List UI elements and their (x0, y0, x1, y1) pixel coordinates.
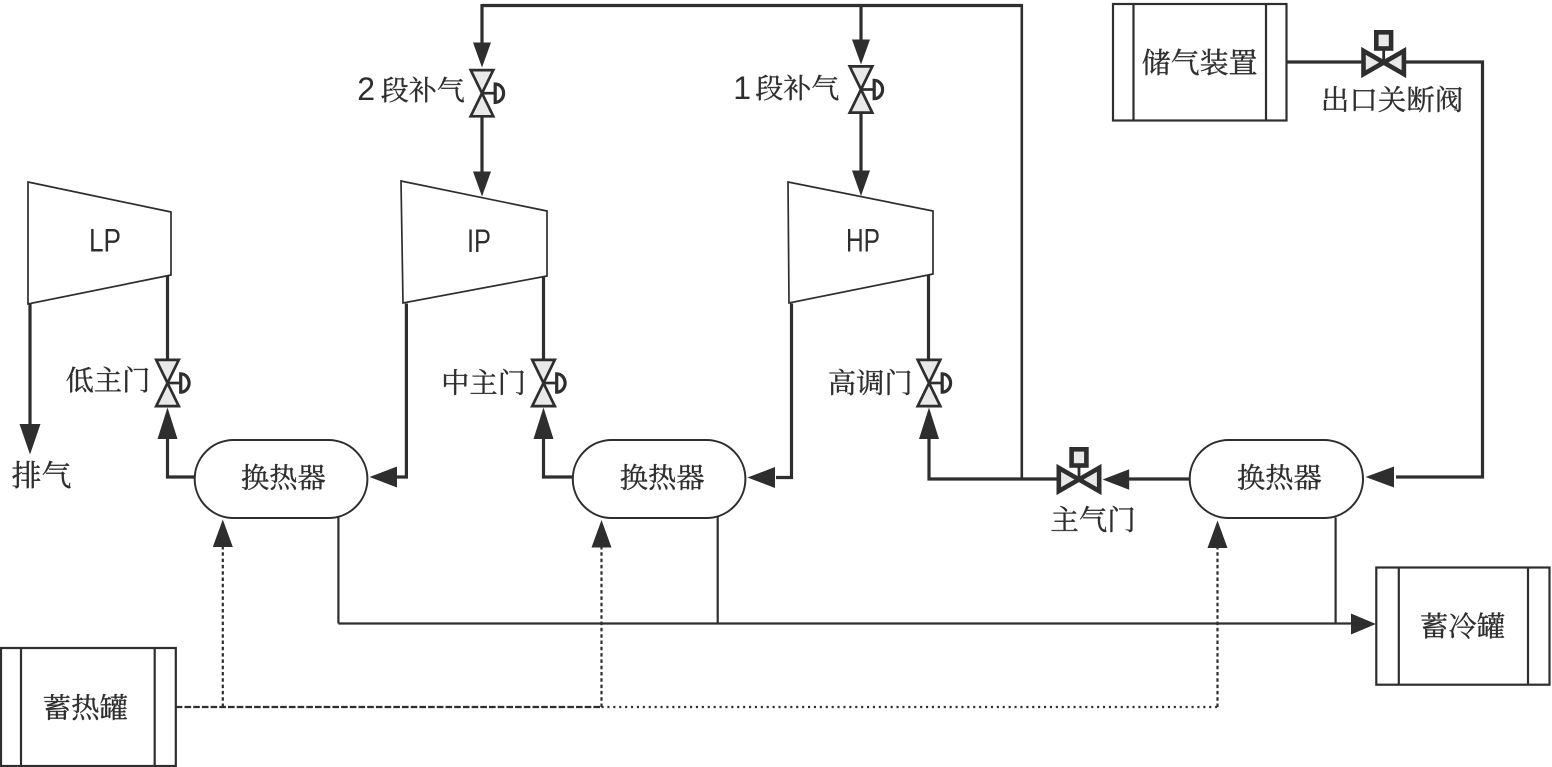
arrow into main valve (1103, 469, 1130, 490)
svg-text:2: 2 (357, 71, 375, 107)
wire right header drop (1020, 4, 1023, 478)
label 换热器 HX1 (242, 464, 325, 490)
tank gas storage 储气装置 (1113, 4, 1287, 121)
valve V2 2-stage makeup (471, 70, 504, 116)
arrow into HX1 (370, 467, 398, 488)
turbine IP (401, 181, 547, 303)
label 换热器 HX2 (621, 464, 704, 490)
svg-text:HP: HP (846, 223, 880, 259)
valve low main 低主门 (156, 360, 189, 406)
wire drop to valve V1 (859, 4, 862, 42)
wire HX3 to main valve (1128, 477, 1191, 480)
wire LP to valve (166, 276, 169, 359)
arrow exhaust (20, 424, 41, 455)
label HP (846, 223, 880, 259)
svg-text:1: 1 (733, 70, 751, 106)
wire LP exhaust (28, 304, 31, 426)
wire shutoff valve to HX3 (1396, 62, 1483, 477)
label 低主门 (66, 366, 148, 392)
label 排气 (12, 461, 70, 489)
arrow into valve V2 (473, 43, 491, 68)
wire HX2 down (717, 517, 719, 624)
wire dashed heat supply header right (602, 706, 1218, 708)
label 蓄冷罐 (1421, 612, 1504, 638)
label 高调门 (829, 369, 910, 395)
arrow into cold tank (1351, 614, 1376, 635)
valve outlet shutoff 出口关断阀 (1364, 32, 1404, 74)
svg-text:IP: IP (467, 223, 491, 259)
tank heat storage 蓄热罐 (1, 648, 176, 766)
label 2 digit (357, 71, 375, 107)
heat exchanger HX3 (1190, 440, 1363, 518)
wire HP to valve (927, 275, 930, 359)
valve high control 高调门 (918, 360, 951, 406)
wire storage to shutoff valve (1287, 60, 1363, 63)
valve main steam 主气门 (1059, 449, 1099, 491)
wire HP out to HX2 (776, 304, 792, 478)
wire collector to cold tank (338, 622, 1352, 624)
tank cold storage 蓄冷罐 (1376, 568, 1549, 685)
wire IP to valve (542, 277, 545, 359)
valve mid main 中主门 (532, 360, 565, 406)
arrow into high control valve (919, 408, 939, 440)
label 主气门 (1052, 506, 1134, 532)
arrow dashed into HX1 (213, 520, 233, 548)
wire valve V2 to IP (480, 118, 483, 174)
turbine LP (28, 182, 171, 304)
wire HX2 to mid main valve (544, 438, 574, 478)
valve V1 1-stage makeup (850, 66, 883, 112)
label 中主门 (444, 369, 524, 395)
arrow into HP (852, 171, 870, 197)
heat exchanger HX1 (195, 440, 368, 518)
label 2段补气 CJK (382, 77, 464, 103)
wire HX1 to low main valve (168, 438, 196, 478)
wire valve V1 to HP (859, 114, 862, 172)
label 蓄热罐 (44, 694, 127, 720)
wire dashed heat supply header left (176, 706, 602, 708)
arrow into valve V1 (852, 40, 870, 65)
label 换热器 HX3 (1238, 464, 1321, 490)
arrow into HX3 (1366, 467, 1395, 488)
label 出口关断阀 (1323, 86, 1462, 112)
wire dashed riser to HX3 (1216, 546, 1218, 707)
label 1 digit (733, 70, 751, 106)
wire drop to valve V2 (480, 4, 483, 45)
wire top header (482, 4, 1022, 7)
arrow dashed into HX2 (592, 520, 612, 548)
label 储气装置 (1143, 49, 1257, 76)
arrow into mid main valve (534, 408, 554, 440)
wire dashed riser to HX1 (222, 545, 224, 707)
label 1段补气 CJK (756, 75, 838, 101)
wire main steam pipe left (929, 438, 1058, 480)
wire HX3 down (1334, 518, 1336, 624)
wire IP out to HX1 (396, 304, 406, 478)
turbine HP (788, 182, 933, 303)
label LP (89, 223, 121, 259)
arrow dashed into HX3 (1208, 521, 1228, 549)
label IP (467, 223, 491, 259)
arrow into IP (473, 172, 491, 197)
wire dashed riser to HX2 (600, 545, 602, 707)
svg-text:LP: LP (89, 223, 121, 259)
arrow into low main valve (158, 408, 178, 440)
heat exchanger HX2 (573, 440, 746, 518)
arrow into HX2 (748, 467, 776, 488)
wire HX1 down (337, 517, 339, 624)
